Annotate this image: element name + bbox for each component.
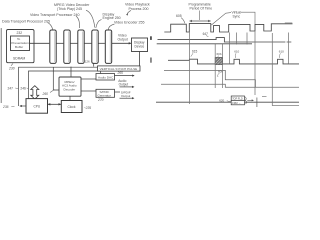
svg-text:TOP FLD: TOP FLD: [232, 97, 243, 100]
svg-text:126: 126: [85, 60, 90, 64]
svg-text:Decoder: Decoder: [64, 87, 76, 91]
svg-text:610: 610: [234, 50, 239, 54]
svg-text:605: 605: [176, 14, 182, 18]
svg-text:246: 246: [20, 86, 26, 90]
svg-text:Device: Device: [135, 45, 145, 49]
svg-text:SDRAM: SDRAM: [13, 56, 25, 60]
svg-text:Clock: Clock: [68, 105, 76, 109]
svg-text:MPEG Video Decoder: MPEG Video Decoder: [54, 3, 90, 7]
svg-text:Period Of Time: Period Of Time: [190, 7, 213, 11]
svg-text:Video Transport Processor 240: Video Transport Processor 240: [30, 13, 79, 17]
svg-text:610: 610: [279, 50, 284, 54]
svg-text:265: 265: [117, 71, 124, 75]
svg-text:CPU: CPU: [34, 104, 41, 108]
svg-text:(Trick Play) 245: (Trick Play) 245: [57, 7, 82, 11]
svg-text:615: 615: [192, 50, 198, 54]
svg-text:Data Transport Processor 205: Data Transport Processor 205: [2, 19, 50, 23]
svg-text:~235: ~235: [84, 106, 92, 110]
svg-text:Output: Output: [118, 37, 128, 41]
svg-text:230: 230: [8, 66, 15, 70]
svg-text:260: 260: [42, 92, 49, 96]
svg-text:236: 236: [2, 105, 9, 109]
svg-text:232: 232: [17, 31, 23, 35]
svg-text:247: 247: [8, 86, 14, 90]
svg-text:Process 200: Process 200: [129, 7, 149, 11]
svg-text:Output: Output: [119, 83, 129, 87]
svg-text:Buffer: Buffer: [15, 45, 23, 49]
svg-text:647: 647: [203, 32, 209, 36]
svg-text:270: 270: [97, 98, 104, 102]
svg-text:Engine 250: Engine 250: [103, 16, 121, 20]
svg-text:FRM →: FRM →: [232, 102, 241, 105]
svg-text:Video Encoder 255: Video Encoder 255: [114, 21, 145, 25]
svg-text:Sync: Sync: [233, 14, 241, 18]
svg-text:Output: Output: [121, 94, 130, 98]
svg-text:Audio DAC: Audio DAC: [98, 75, 114, 79]
svg-text:60b: 60b: [217, 52, 222, 56]
svg-text:620: 620: [219, 98, 224, 102]
